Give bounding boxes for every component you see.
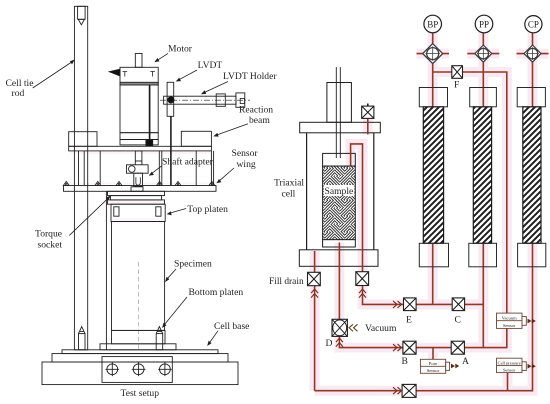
svg-text:Fill drain: Fill drain: [269, 277, 304, 287]
valve A: [451, 341, 464, 354]
torque socket stack: [108, 187, 165, 204]
sample bottom platen: [323, 240, 356, 247]
svg-text:Motor: Motor: [168, 44, 193, 55]
cell top cap: [300, 122, 381, 133]
wire cell pressure sensor drop: [507, 373, 509, 391]
valve B: [403, 341, 416, 354]
svg-text:Cell base: Cell base: [214, 321, 249, 332]
piston rod: [336, 67, 340, 158]
valve E: [404, 298, 417, 311]
bolt block: [102, 357, 172, 383]
svg-text:beam: beam: [249, 115, 270, 126]
svg-text:LVDT: LVDT: [198, 60, 223, 71]
label Torque socket: [35, 196, 111, 251]
svg-text:A: A: [462, 356, 469, 367]
svg-text:Sensor: Sensor: [427, 368, 440, 373]
svg-text:BP: BP: [427, 19, 438, 29]
base pedestal upper: [52, 354, 228, 362]
svg-text:Sensor: Sensor: [232, 148, 259, 159]
svg-text:Torque: Torque: [35, 229, 62, 240]
svg-text:F: F: [454, 80, 459, 91]
cell pressure sensor box: [497, 358, 536, 372]
svg-text:Cell pressure: Cell pressure: [498, 360, 521, 365]
label Cell base: [207, 321, 249, 346]
svg-text:Vacuum: Vacuum: [365, 323, 397, 334]
flow chevrons below fill drain valve: [311, 289, 318, 298]
BP column top cap: [419, 88, 447, 107]
motor cable flag: [109, 69, 120, 76]
label LVDT: [176, 60, 223, 82]
vacuum inlet chevrons right of valve D: [349, 324, 358, 331]
svg-text:Top platen: Top platen: [187, 204, 228, 215]
PP regulator cross valve: [475, 45, 492, 62]
wire pore sensor tap: [432, 348, 434, 360]
label Specimen: [165, 259, 212, 283]
reaction beam right block: [181, 131, 211, 146]
svg-text:B: B: [402, 356, 408, 367]
label Triaxial cell: [274, 178, 304, 200]
pore pressure column hatch: [473, 107, 491, 244]
sensor wing bar: [64, 186, 217, 192]
valve bottom drain: [402, 384, 416, 397]
BP column bottom cap: [419, 243, 448, 266]
valve F: [452, 66, 463, 79]
svg-text:CP: CP: [528, 20, 539, 30]
wire fill drain vertical: [314, 251, 316, 391]
wire CP valve arms: [517, 53, 549, 55]
wing clamps: [63, 181, 215, 185]
LVDT body: [167, 82, 174, 116]
CP column top cap: [517, 88, 545, 107]
valve C: [452, 298, 464, 311]
svg-text:Pore: Pore: [429, 361, 437, 366]
vacuum sensor box: [497, 313, 536, 328]
svg-text:Sensor: Sensor: [503, 367, 516, 372]
svg-text:cell: cell: [282, 189, 296, 200]
svg-text:Triaxial: Triaxial: [274, 178, 304, 189]
flow chevrons below right cell valve: [359, 289, 366, 298]
sample top platen: [323, 153, 356, 166]
cell bottom cap: [299, 250, 378, 266]
svg-text:Sensor: Sensor: [503, 323, 516, 328]
svg-text:E: E: [406, 315, 412, 326]
specimen: [112, 222, 165, 331]
wire cell top valve stem: [367, 118, 369, 134]
svg-text:PP: PP: [479, 19, 489, 29]
valve right cell drain: [356, 272, 369, 286]
wire sample bottom drain through D to B A and vacuum sensor: [339, 243, 506, 348]
LVDT sensor rod: [170, 116, 172, 185]
sample body hatched: [323, 166, 356, 240]
hold down bolt right: [156, 327, 163, 350]
PP column bottom cap: [469, 243, 497, 266]
bottom platen: [100, 330, 176, 349]
label Cell tie rod: [6, 60, 75, 100]
pore sensor box: [420, 359, 459, 373]
BP controller circle: [424, 15, 442, 33]
support rods between beam and wing: [79, 151, 214, 186]
PP controller circle: [475, 15, 493, 33]
LVDT holder arm: [160, 93, 250, 107]
valve D vacuum: [332, 319, 347, 336]
svg-text:socket: socket: [38, 240, 63, 251]
wire sample top drain to E and C: [351, 144, 484, 305]
svg-text:Test setup: Test setup: [121, 388, 160, 399]
svg-text:C: C: [455, 315, 461, 326]
reaction beam plate: [69, 146, 212, 151]
label Sample: [324, 185, 355, 197]
label Shaft adapter: [149, 157, 214, 176]
CP column bottom cap: [518, 243, 546, 266]
wire BP valve arms: [417, 53, 450, 55]
wire PP valve arms: [467, 53, 499, 55]
flow chevrons before valve B: [393, 344, 402, 351]
svg-text:wing: wing: [237, 159, 256, 170]
PP column top cap: [470, 88, 497, 107]
label Motor: [154, 44, 192, 63]
cell pressure column hatch: [523, 107, 541, 244]
wire CP controller vertical and bottom run: [315, 33, 533, 391]
base pedestal lower: [42, 362, 238, 385]
flow chevrons before valve E: [393, 301, 402, 308]
valve fill drain: [308, 272, 321, 285]
svg-text:Sample: Sample: [325, 186, 354, 197]
motor shaft bottom: [135, 151, 142, 161]
svg-text:Reaction: Reaction: [239, 105, 273, 116]
reaction beam left block: [69, 132, 97, 147]
wire BP controller vertical: [432, 33, 434, 305]
label LVDT Holder: [201, 71, 277, 94]
hold down bolt left: [79, 327, 86, 350]
flow chevrons below valve D: [336, 338, 343, 347]
cell tie rod: [74, 6, 87, 350]
cell base plate: [62, 350, 218, 354]
svg-text:Specimen: Specimen: [174, 259, 212, 270]
motor body: [120, 67, 158, 146]
shaft adapter: [127, 165, 149, 187]
svg-text:Shaft adapter: Shaft adapter: [162, 157, 214, 168]
label Bottom platen: [162, 287, 243, 328]
svg-text:D: D: [326, 338, 333, 349]
svg-text:Vacuum: Vacuum: [502, 316, 517, 321]
cell walls: [307, 133, 374, 250]
cell left wall: [105, 191, 107, 349]
motor shaft top: [135, 54, 142, 68]
BP regulator cross valve: [423, 44, 443, 64]
label Top platen: [167, 204, 229, 215]
CP regulator cross valve: [524, 45, 541, 62]
svg-text:LVDT Holder: LVDT Holder: [223, 71, 277, 82]
svg-text:Bottom platen: Bottom platen: [189, 287, 244, 298]
svg-text:rod: rod: [12, 88, 25, 99]
specimen centerline: [137, 262, 139, 351]
label Sensor wing: [216, 148, 258, 183]
flow chevrons before bottom valve: [393, 387, 402, 394]
wire PP controller vertical: [482, 33, 484, 348]
back pressure column hatch: [423, 107, 443, 244]
top platen: [111, 204, 165, 221]
valve on cell top cap: [362, 104, 374, 119]
CP controller circle: [525, 16, 542, 33]
wire F line to vacuum sensor: [433, 72, 507, 313]
label Reaction beam: [213, 105, 273, 137]
piston housing: [327, 83, 352, 123]
